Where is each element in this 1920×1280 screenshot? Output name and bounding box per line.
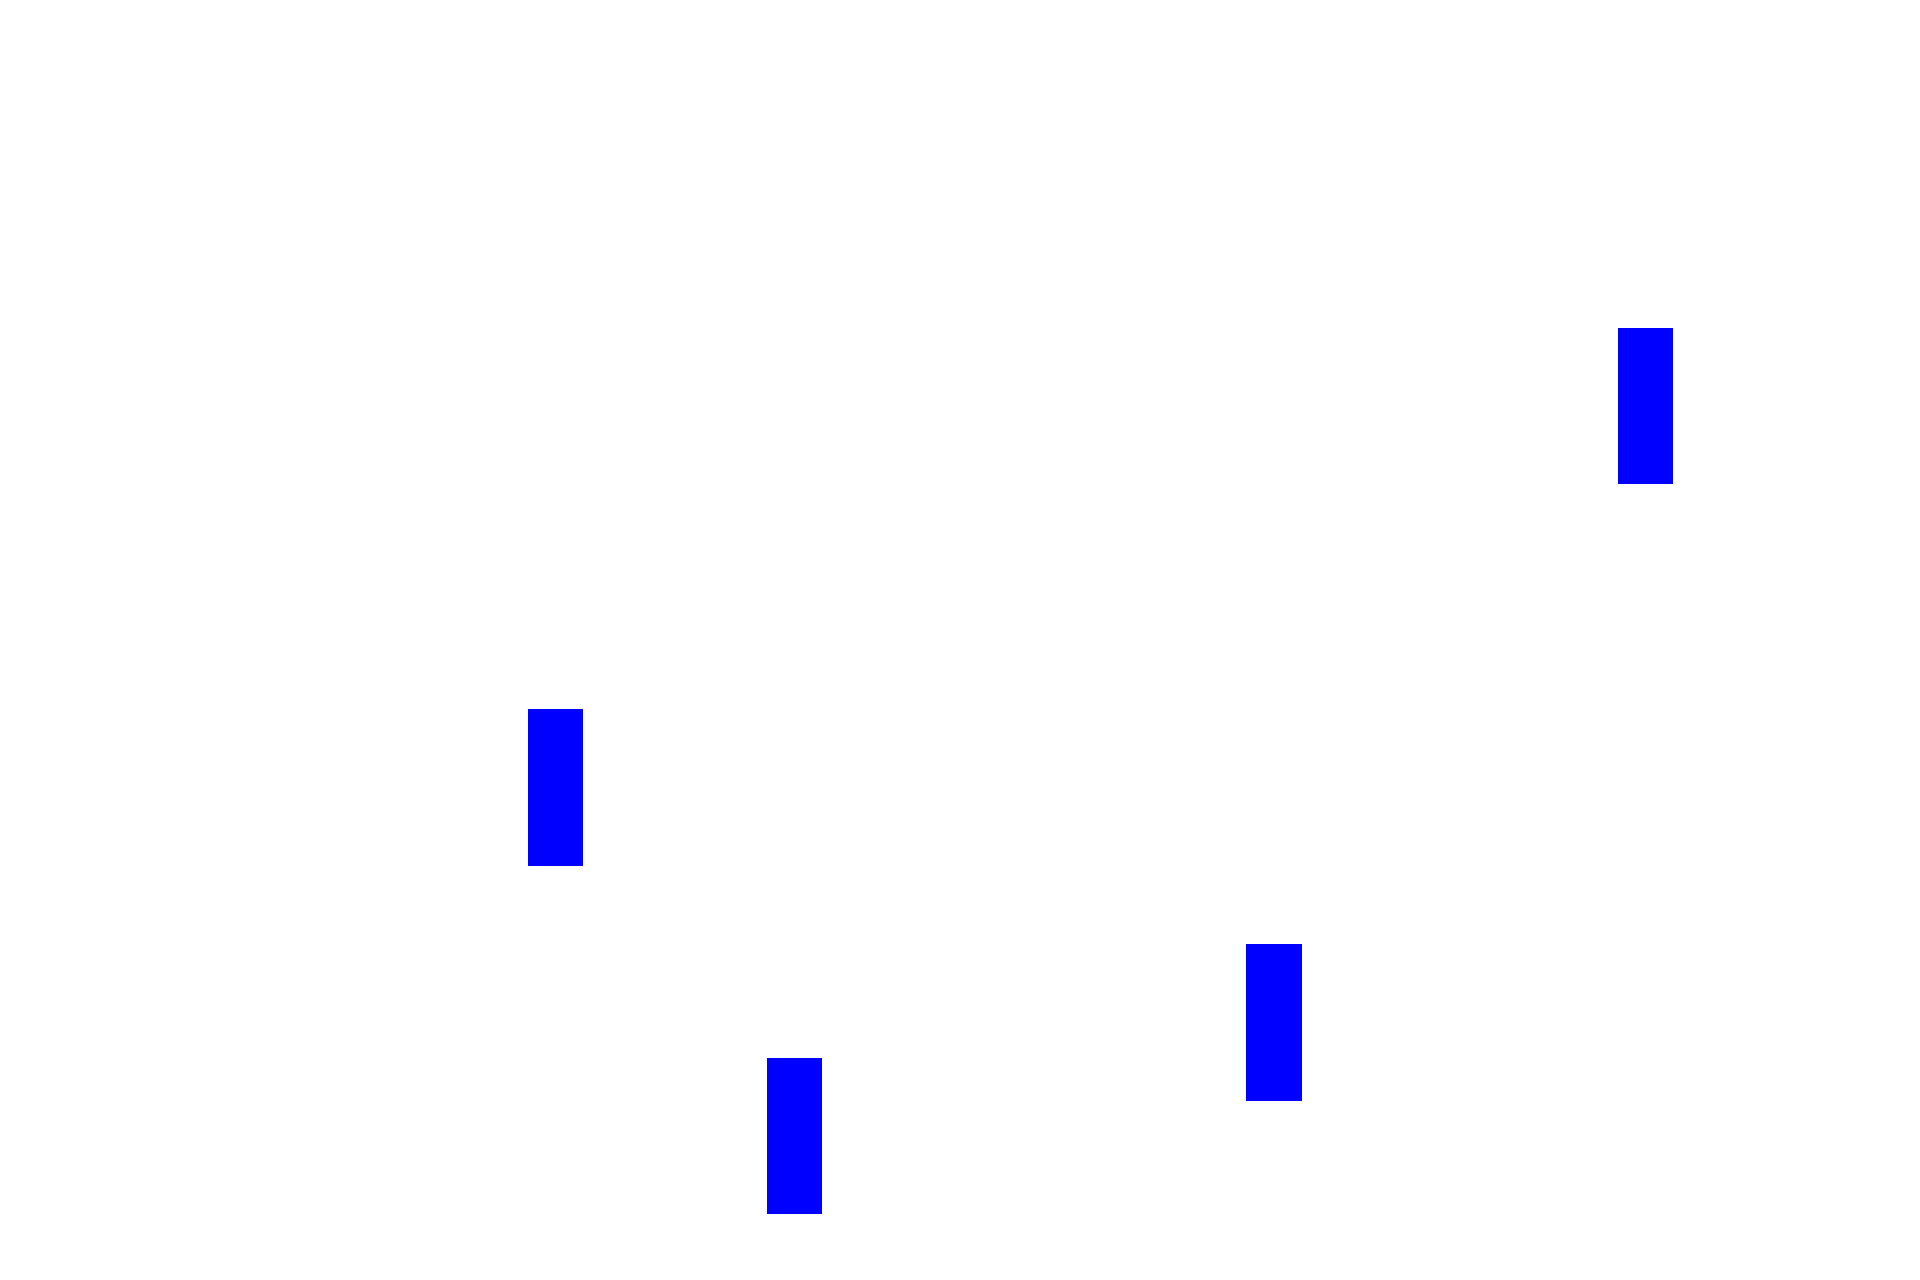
bar D (right-lower blue bar) <box>1246 944 1302 1101</box>
bar B (left-middle blue bar) <box>528 709 583 866</box>
bar C (bottom-center blue bar) <box>767 1058 822 1214</box>
bar A (top-right blue bar) <box>1618 328 1673 484</box>
